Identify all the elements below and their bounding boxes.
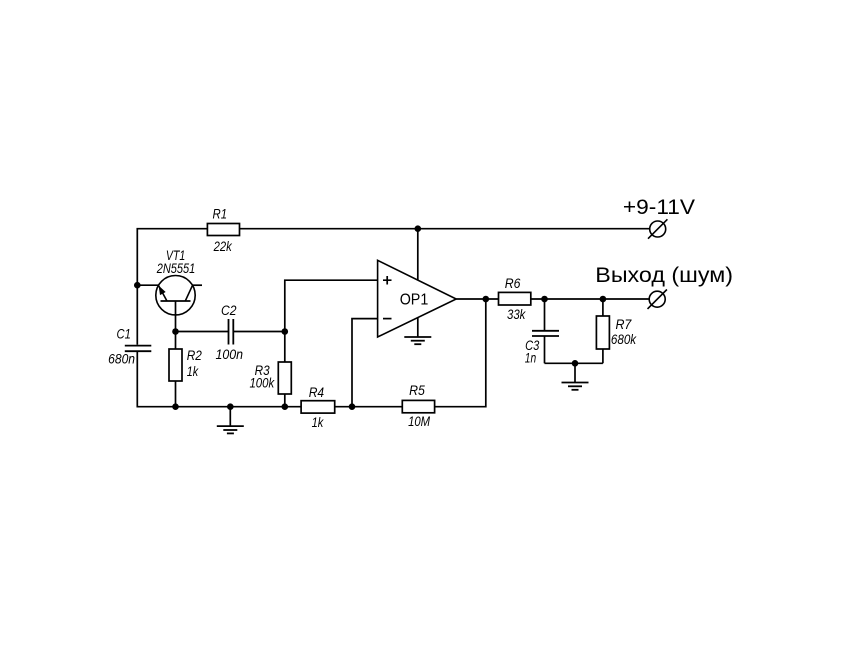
svg-text:C1: C1: [117, 327, 131, 342]
resistor R3: [278, 362, 291, 394]
svg-text:22k: 22k: [213, 239, 233, 254]
svg-text:R4: R4: [309, 385, 324, 400]
wire R3 branch: [284, 332, 286, 407]
node R7 top: [600, 296, 607, 303]
wire ground stem C3: [574, 363, 576, 382]
svg-text:R6: R6: [505, 276, 521, 291]
svg-text:100k: 100k: [249, 376, 275, 391]
node ground tap: [227, 403, 234, 410]
wire left rail lower: [137, 352, 486, 407]
wire C3 lower: [544, 336, 546, 363]
svg-text:R5: R5: [409, 383, 425, 398]
wire feedback up: [485, 299, 487, 408]
node R3/R4: [282, 403, 289, 410]
node A C2/R3/plus: [282, 328, 289, 335]
svg-text:1k: 1k: [312, 415, 325, 430]
node R4/minus: [349, 403, 356, 410]
wire emitter lead: [137, 284, 158, 286]
svg-text:1k: 1k: [187, 364, 199, 379]
wire ground stem mid: [229, 407, 231, 426]
wire C3 bottom to R7: [545, 362, 603, 364]
capacitor C2: [229, 319, 234, 345]
svg-text:33k: 33k: [507, 307, 526, 322]
capacitor C3: [532, 331, 559, 336]
node power rail: [415, 225, 422, 232]
transistor VT1: [156, 276, 195, 315]
wire C2 to node A: [233, 331, 284, 333]
wire base node to C2: [176, 331, 229, 333]
node R6/C3: [541, 296, 548, 303]
terminal +9-11V: [648, 219, 667, 238]
svg-text:R1: R1: [213, 207, 228, 222]
node base-emitter junction: [134, 282, 141, 289]
ground C3: [562, 383, 589, 390]
svg-text:R7: R7: [615, 317, 631, 332]
svg-text:680k: 680k: [611, 332, 637, 347]
svg-text:1n: 1n: [525, 351, 536, 366]
wire node A up to plus input: [285, 280, 378, 331]
wire R7 branch: [602, 299, 604, 363]
wire R2 branch: [175, 332, 177, 407]
wire minus input branch: [352, 319, 378, 407]
wire base lead: [175, 301, 177, 332]
svg-text:100n: 100n: [216, 347, 244, 362]
terminal output: [648, 290, 667, 309]
resistor R7: [596, 316, 609, 349]
svg-text:680n: 680n: [108, 352, 135, 367]
node R2 bottom: [172, 403, 179, 410]
svg-text:C2: C2: [221, 303, 237, 318]
svg-text:+9-11V: +9-11V: [623, 196, 695, 219]
svg-text:OP1: OP1: [400, 292, 429, 309]
capacitor C1: [125, 346, 152, 352]
wire opamp ground pin: [417, 318, 419, 337]
wire collector stub: [192, 284, 202, 286]
wire output rail: [456, 298, 649, 300]
resistor R6: [499, 292, 531, 305]
node output/feedback: [483, 296, 490, 303]
wire top rail: [137, 229, 650, 345]
node C3/ground: [572, 360, 579, 367]
resistor R5: [402, 400, 434, 412]
wire C3 upper: [544, 299, 546, 331]
svg-text:2N5551: 2N5551: [156, 261, 195, 276]
ground bottom rail: [217, 426, 244, 433]
svg-text:Выход (шум): Выход (шум): [595, 264, 733, 287]
svg-text:R2: R2: [187, 348, 203, 363]
node base/C2: [172, 328, 179, 335]
resistor R2: [169, 349, 182, 381]
resistor R4: [301, 401, 335, 413]
ground below opamp: [404, 337, 431, 344]
op-amp OP1: [378, 260, 457, 337]
wire opamp power pin: [417, 229, 419, 281]
resistor R1: [207, 224, 239, 236]
svg-text:10M: 10M: [408, 414, 431, 429]
